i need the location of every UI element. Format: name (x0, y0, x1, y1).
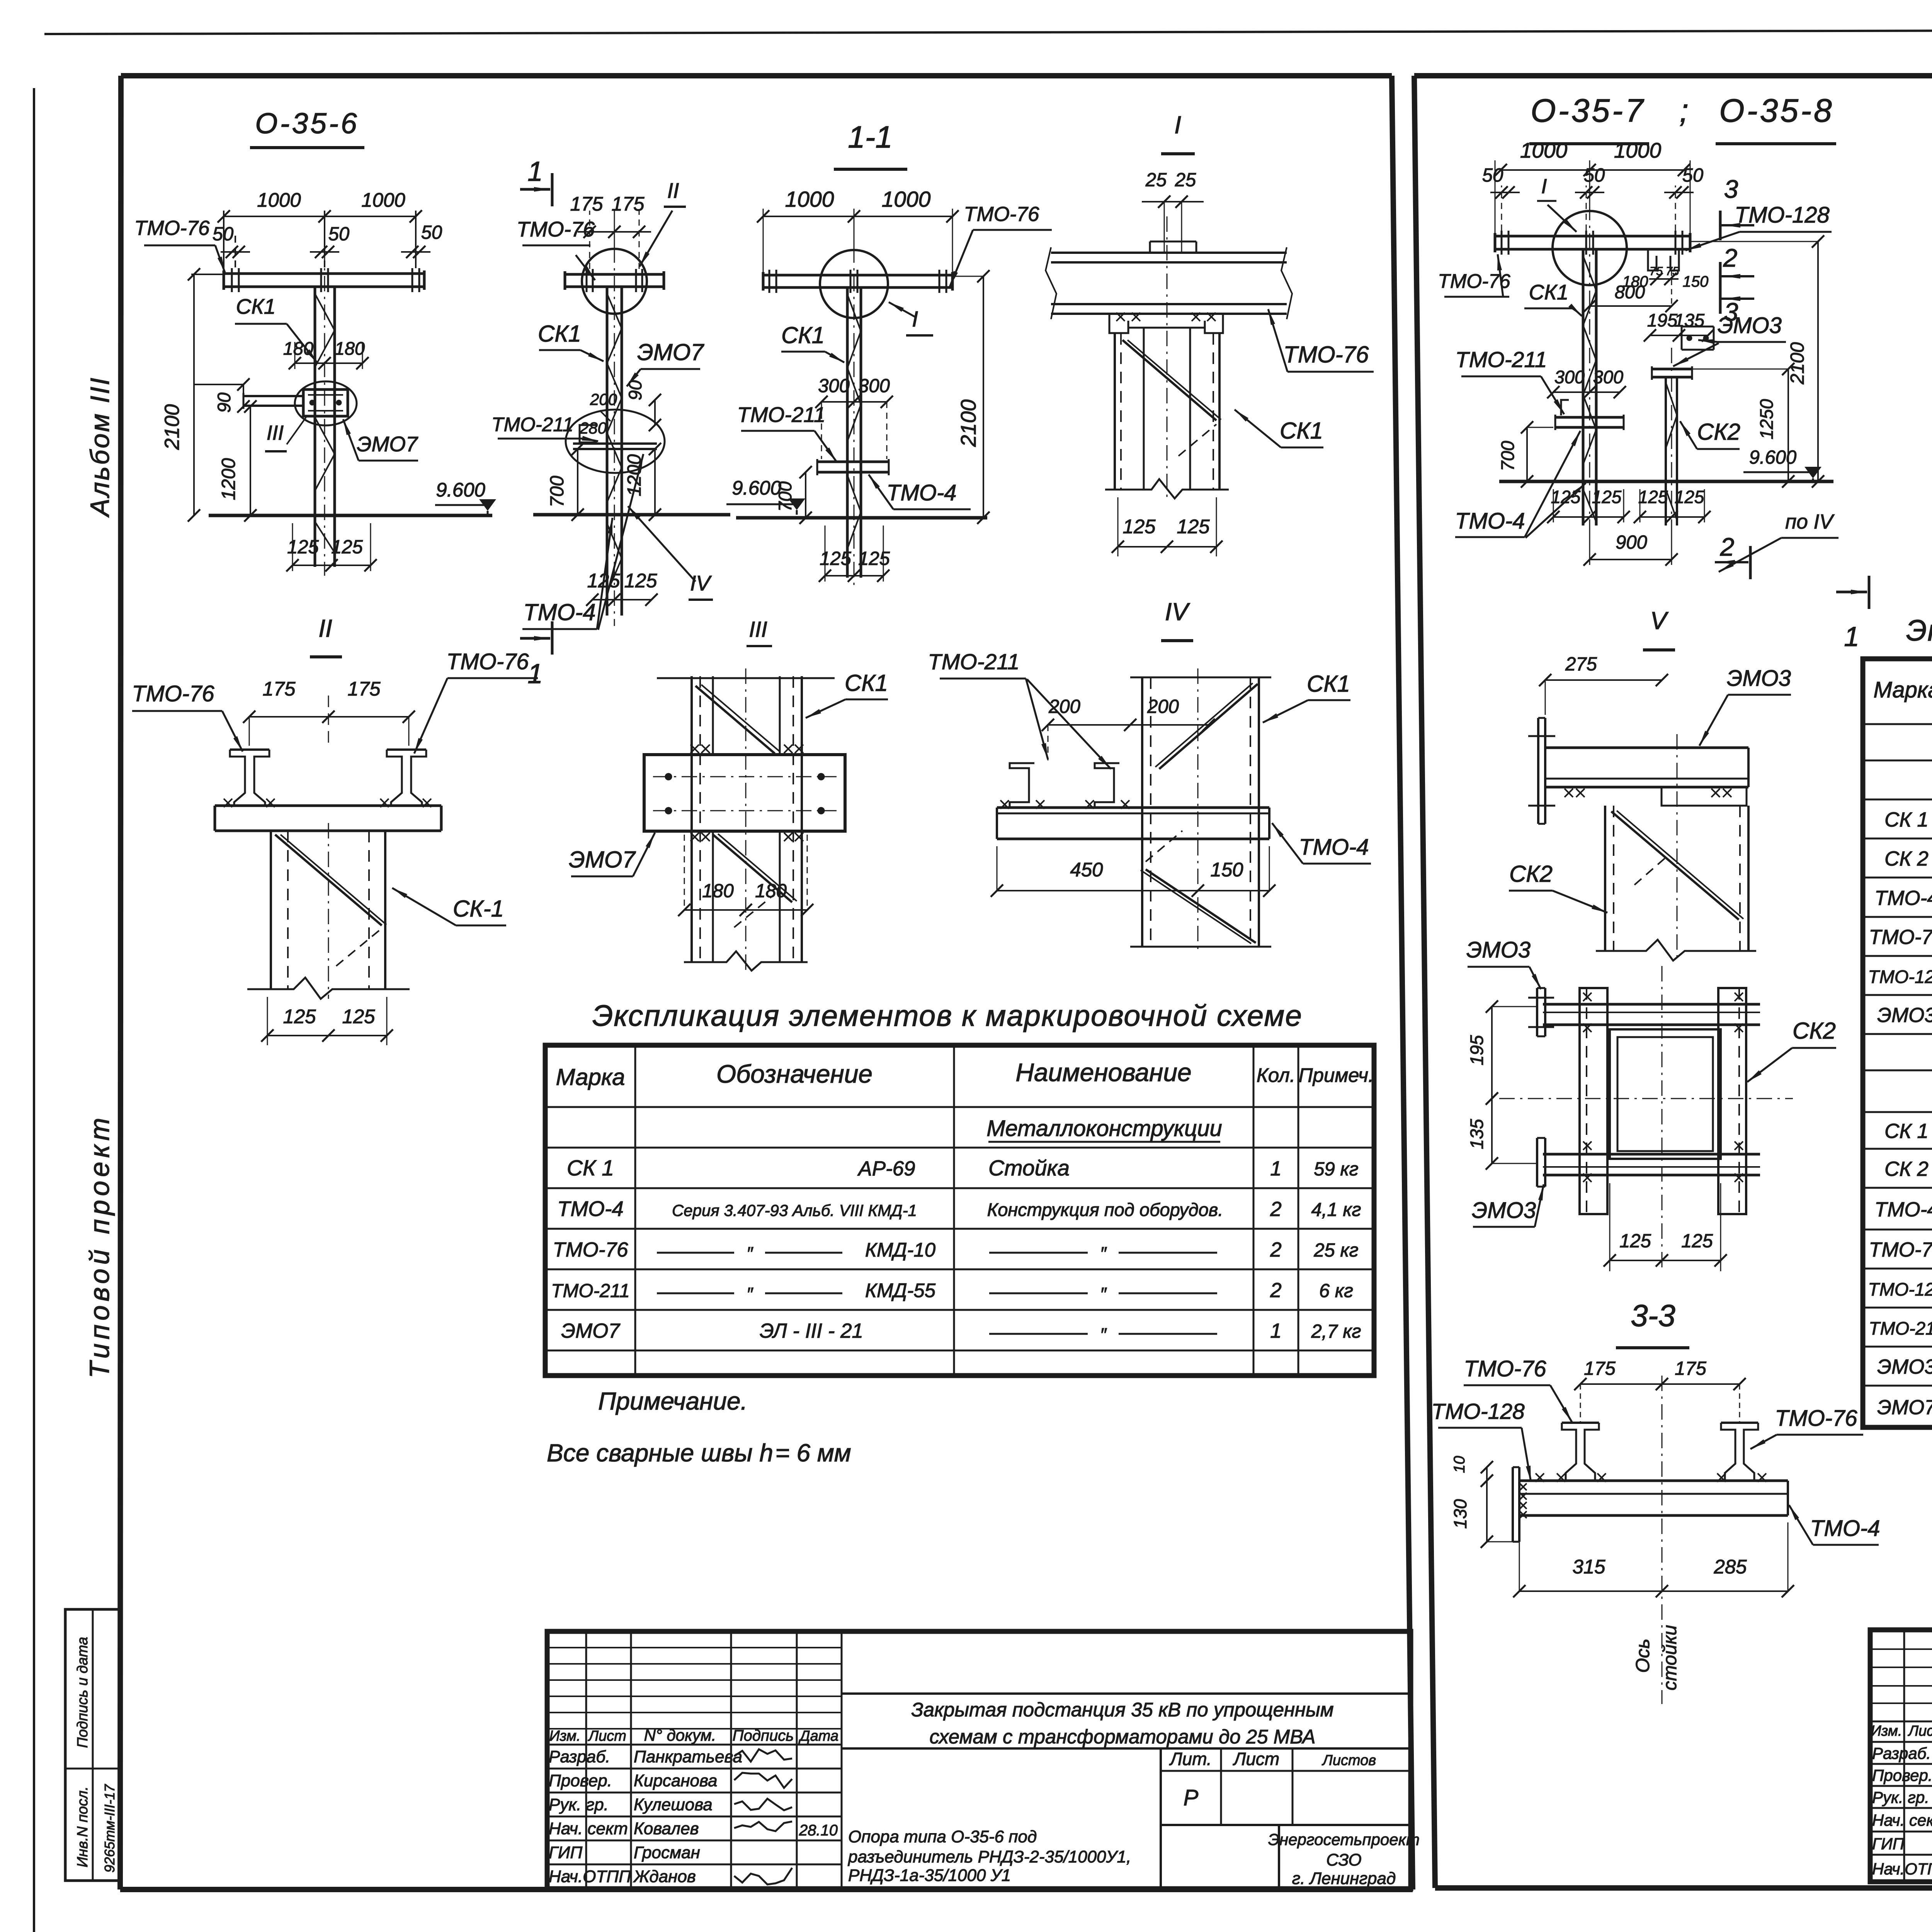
svg-text:Кирсанова: Кирсанова (634, 1771, 718, 1790)
svg-text:III: III (267, 422, 284, 444)
svg-text:175: 175 (347, 678, 381, 700)
svg-text:Типовой проект: Типовой проект (85, 1114, 115, 1378)
svg-text:300: 300 (1593, 367, 1623, 387)
svg-text:135: 135 (1466, 1119, 1487, 1149)
svg-text:стойки: стойки (1660, 1625, 1680, 1690)
svg-text:Кол.: Кол. (1257, 1064, 1295, 1086)
svg-text:О-35-7: О-35-7 (1531, 92, 1645, 129)
svg-text:300: 300 (818, 376, 850, 396)
svg-text:Ковалев: Ковалев (634, 1819, 699, 1838)
svg-text:Рук. гр.: Рук. гр. (549, 1795, 609, 1814)
svg-text:2: 2 (1270, 1279, 1281, 1302)
svg-text:СК1: СК1 (1307, 671, 1350, 697)
svg-text:Нач. сект: Нач. сект (549, 1819, 628, 1838)
svg-text:Инв.N посл.: Инв.N посл. (75, 1786, 91, 1867)
svg-text:ТМО-76: ТМО-76 (446, 649, 529, 674)
svg-text:Гросман: Гросман (634, 1843, 700, 1862)
svg-text:ЭМО3: ЭМО3 (1877, 1355, 1932, 1378)
svg-text:Провер.: Провер. (1872, 1766, 1932, 1784)
svg-text:180: 180 (702, 881, 734, 901)
svg-text:3-3: 3-3 (1631, 1298, 1675, 1333)
svg-text:200: 200 (1048, 696, 1080, 717)
svg-text:ТМО-76: ТМО-76 (1464, 1356, 1546, 1381)
svg-text:ЭМО7: ЭМО7 (569, 847, 636, 872)
svg-text:ТМО-76: ТМО-76 (134, 217, 210, 240)
svg-text:СК1: СК1 (1280, 418, 1323, 444)
svg-text:175: 175 (570, 193, 603, 215)
svg-text:50: 50 (421, 222, 442, 243)
svg-text:ТМО-211: ТМО-211 (1455, 347, 1547, 372)
svg-text:Экспликация элементов к: Экспликация элементов к маркировочной сх… (592, 999, 1303, 1032)
svg-text:Все сварные швы h = 6 м: Все сварные швы h = 6 мм (547, 1439, 851, 1467)
svg-text:9.600: 9.600 (1749, 447, 1797, 468)
svg-text:г. Ленинград: г. Ленинград (1292, 1869, 1396, 1888)
svg-text:ЭМО7: ЭМО7 (357, 432, 418, 456)
svg-text:Лист: Лист (1907, 1723, 1932, 1739)
svg-text:195: 195 (1647, 310, 1678, 330)
svg-text:ЭМО3: ЭМО3 (1877, 1004, 1932, 1027)
svg-text:150: 150 (1210, 859, 1243, 881)
svg-text:700: 700 (1497, 441, 1518, 471)
svg-text:I: I (1541, 175, 1547, 198)
svg-text:Опора типа О-35-6 под: Опора типа О-35-6 под (848, 1827, 1037, 1846)
svg-text:175: 175 (1675, 1358, 1707, 1379)
svg-text:9.600: 9.600 (732, 477, 781, 499)
svg-text:II: II (318, 614, 332, 642)
svg-text:50: 50 (328, 224, 350, 245)
svg-text:ТМО-4: ТМО-4 (1874, 1198, 1932, 1221)
svg-text:Панкратьева: Панкратьева (634, 1747, 742, 1766)
svg-text:25: 25 (1145, 170, 1167, 190)
svg-text:ГИП: ГИП (549, 1843, 582, 1862)
svg-text:КМД-10: КМД-10 (865, 1239, 935, 1261)
svg-text:125: 125 (858, 548, 890, 569)
svg-text:10: 10 (1451, 1456, 1468, 1473)
svg-text:АР-69: АР-69 (857, 1157, 915, 1180)
svg-text:ЭМО3: ЭМО3 (1472, 1198, 1536, 1223)
svg-text:Разраб.: Разраб. (549, 1747, 610, 1766)
svg-text:Изм.: Изм. (549, 1728, 580, 1744)
svg-text:Подпись: Подпись (733, 1727, 794, 1744)
svg-text:125: 125 (1638, 487, 1668, 507)
svg-text:ТМО-76: ТМО-76 (132, 681, 214, 706)
svg-text:Нач. сект.: Нач. сект. (1872, 1811, 1932, 1829)
svg-text:300: 300 (858, 376, 890, 396)
svg-text:Примечание.: Примечание. (598, 1387, 747, 1415)
svg-text:Разраб.: Разраб. (1872, 1744, 1931, 1762)
svg-text:50: 50 (1584, 165, 1605, 186)
svg-text:ТМО-211: ТМО-211 (928, 650, 1019, 674)
svg-text:ЭМО7: ЭМО7 (1877, 1396, 1932, 1419)
svg-text:;: ; (1679, 92, 1688, 129)
svg-text:Р: Р (1184, 1785, 1199, 1810)
svg-text:ТМО-76: ТМО-76 (517, 217, 595, 241)
svg-text:200: 200 (1147, 696, 1179, 717)
svg-text:IV: IV (690, 571, 712, 595)
svg-text:2100: 2100 (161, 404, 184, 450)
svg-text:1000: 1000 (361, 189, 405, 211)
svg-text:1: 1 (1844, 622, 1859, 652)
svg-text:СК 1: СК 1 (1884, 1120, 1929, 1143)
svg-text:125: 125 (1681, 1231, 1713, 1252)
svg-text:175: 175 (262, 678, 296, 700)
svg-text:″: ″ (747, 1243, 753, 1264)
svg-text:″: ″ (1100, 1324, 1107, 1345)
svg-text:Лист: Лист (587, 1728, 626, 1744)
svg-text:ЭМО7: ЭМО7 (561, 1320, 621, 1342)
svg-text:ЭМО3: ЭМО3 (1718, 313, 1782, 338)
svg-text:ЭМО3: ЭМО3 (1466, 937, 1531, 963)
svg-text:1250: 1250 (1756, 399, 1777, 440)
svg-text:50: 50 (213, 224, 234, 245)
svg-text:ТМО-4: ТМО-4 (1810, 1516, 1880, 1541)
svg-text:125: 125 (287, 537, 319, 558)
svg-text:200: 200 (590, 390, 617, 408)
svg-text:″: ″ (1100, 1243, 1107, 1264)
svg-text:КМД-55: КМД-55 (865, 1279, 936, 1301)
svg-text:по IV: по IV (1785, 510, 1835, 533)
svg-text:2: 2 (1270, 1198, 1281, 1221)
svg-text:ТМО-211: ТМО-211 (492, 413, 573, 435)
svg-text:1000: 1000 (1520, 138, 1568, 162)
svg-text:ТМО-211: ТМО-211 (737, 403, 826, 427)
svg-text:125: 125 (1177, 515, 1210, 537)
svg-text:″: ″ (747, 1284, 753, 1304)
svg-text:Нач.ОТПП: Нач.ОТПП (549, 1867, 631, 1886)
svg-text:Примеч.: Примеч. (1299, 1064, 1374, 1086)
svg-text:Альбом III: Альбом III (85, 376, 115, 518)
svg-text:2: 2 (1720, 532, 1735, 561)
svg-text:Металлоконструкции: Металлоконструкции (986, 1116, 1222, 1141)
svg-text:9.600: 9.600 (436, 479, 485, 501)
svg-text:СК1: СК1 (1529, 280, 1569, 304)
svg-text:Изм.: Изм. (1871, 1723, 1902, 1739)
svg-text:СК 1: СК 1 (1884, 808, 1929, 831)
svg-text:ТМО-211: ТМО-211 (551, 1281, 630, 1301)
svg-text:Кулешова: Кулешова (634, 1795, 713, 1814)
svg-text:1000: 1000 (882, 187, 931, 212)
svg-text:180: 180 (755, 881, 787, 901)
svg-text:II: II (667, 179, 679, 202)
svg-text:150: 150 (1683, 273, 1709, 290)
svg-text:ТМО-211: ТМО-211 (1869, 1318, 1932, 1338)
svg-text:Подпись и дата: Подпись и дата (75, 1637, 91, 1748)
svg-text:Лит.: Лит. (1169, 1749, 1212, 1769)
svg-text:ТМО-76: ТМО-76 (1775, 1406, 1857, 1431)
svg-text:125: 125 (1675, 487, 1704, 507)
svg-text:ГИП: ГИП (1872, 1835, 1905, 1853)
svg-text:125: 125 (587, 570, 620, 592)
svg-text:ТМО-4: ТМО-4 (1874, 887, 1932, 910)
svg-text:175: 175 (1584, 1358, 1616, 1379)
svg-text:Дата: Дата (798, 1728, 838, 1744)
svg-text:СК1: СК1 (236, 294, 276, 318)
svg-text:N° докум.: N° докум. (644, 1726, 716, 1744)
svg-text:СК2: СК2 (1509, 861, 1553, 887)
svg-text:ТМО-76: ТМО-76 (1284, 342, 1369, 367)
svg-text:СЗО: СЗО (1326, 1850, 1362, 1869)
svg-text:315: 315 (1572, 1556, 1605, 1578)
svg-text:Лист: Лист (1233, 1749, 1279, 1769)
svg-text:разъединитель РНДЗ-2-35/1000У: разъединитель РНДЗ-2-35/1000У1, (847, 1847, 1131, 1866)
svg-text:125: 125 (342, 1005, 375, 1027)
svg-text:СК2: СК2 (1697, 419, 1740, 445)
svg-text:125: 125 (820, 548, 852, 569)
svg-text:СК1: СК1 (781, 322, 825, 348)
svg-text:СК1: СК1 (538, 321, 581, 347)
svg-text:ТМО-128: ТМО-128 (1868, 1279, 1932, 1299)
svg-text:СК-1: СК-1 (453, 896, 504, 922)
svg-text:Экспликация элементов к: Экспликация элементов к маркировочной сх… (1906, 614, 1932, 647)
svg-text:1000: 1000 (257, 189, 301, 211)
svg-text:125: 125 (283, 1005, 316, 1027)
svg-text:50: 50 (1682, 165, 1704, 186)
svg-text:2,7 кг: 2,7 кг (1311, 1321, 1361, 1342)
svg-text:Наименование: Наименование (1015, 1058, 1192, 1087)
svg-text:I: I (1174, 111, 1181, 139)
svg-text:25: 25 (1175, 170, 1196, 190)
svg-text:III: III (749, 617, 767, 642)
svg-text:Листов: Листов (1321, 1752, 1376, 1769)
svg-text:50: 50 (1482, 165, 1503, 186)
svg-text:180: 180 (335, 338, 365, 359)
svg-text:ТМО-4: ТМО-4 (557, 1197, 624, 1221)
svg-text:СК 2: СК 2 (1884, 847, 1929, 870)
svg-text:1000: 1000 (785, 187, 834, 212)
svg-text:1: 1 (1270, 1157, 1281, 1180)
svg-text:1: 1 (527, 156, 543, 187)
svg-text:ТМО-4: ТМО-4 (886, 480, 956, 505)
svg-text:РНДЗ-1а-35/1000 У1: РНДЗ-1а-35/1000 У1 (848, 1866, 1011, 1885)
svg-text:Марка: Марка (1873, 677, 1932, 702)
svg-text:90: 90 (214, 393, 234, 413)
svg-text:Провер.: Провер. (549, 1771, 612, 1790)
svg-text:IV: IV (1165, 598, 1190, 626)
svg-text:Жданов: Жданов (633, 1867, 696, 1886)
svg-text:ТМО-76: ТМО-76 (964, 203, 1039, 226)
svg-text:125: 125 (1592, 487, 1622, 507)
svg-text:Обозначение: Обозначение (716, 1060, 872, 1088)
svg-text:130: 130 (1450, 1499, 1470, 1529)
svg-text:9265тм-III-17: 9265тм-III-17 (102, 1784, 117, 1872)
svg-text:СК1: СК1 (845, 670, 888, 696)
svg-text:Энергосетьпроект: Энергосетьпроект (1268, 1830, 1420, 1849)
svg-text:Марка: Марка (556, 1064, 625, 1090)
svg-text:280: 280 (579, 419, 607, 437)
svg-text:180: 180 (283, 338, 313, 359)
svg-text:125: 125 (1619, 1231, 1651, 1252)
svg-text:3: 3 (1724, 175, 1738, 203)
svg-text:Нач.ОТПП: Нач.ОТПП (1872, 1860, 1932, 1878)
svg-text:700: 700 (547, 476, 568, 507)
svg-text:1: 1 (1270, 1320, 1281, 1342)
svg-text:СК2: СК2 (1793, 1018, 1836, 1044)
svg-text:Рук. гр.: Рук. гр. (1872, 1788, 1929, 1806)
svg-text:25 кг: 25 кг (1313, 1240, 1358, 1261)
svg-text:О-35-8: О-35-8 (1719, 92, 1834, 129)
svg-text:ТМО-4: ТМО-4 (1455, 509, 1525, 534)
svg-text:195: 195 (1466, 1035, 1487, 1065)
svg-text:4,1 кг: 4,1 кг (1311, 1199, 1361, 1220)
svg-text:90: 90 (625, 380, 645, 400)
svg-text:28.10: 28.10 (799, 1822, 838, 1839)
svg-text:ТМО-76: ТМО-76 (1869, 926, 1932, 949)
svg-text:О-35-6: О-35-6 (255, 107, 359, 139)
svg-text:СК 1: СК 1 (567, 1156, 614, 1180)
svg-text:700: 700 (775, 481, 795, 512)
svg-text:Серия 3.407-93 Альб. VIII КМ: Серия 3.407-93 Альб. VIII КМД-1 (672, 1201, 917, 1219)
svg-text:125: 125 (331, 537, 363, 558)
svg-text:ТМО-76: ТМО-76 (1869, 1238, 1932, 1261)
svg-text:1: 1 (527, 659, 543, 689)
svg-text:900: 900 (1616, 532, 1647, 553)
svg-text:″: ″ (1100, 1284, 1107, 1304)
svg-text:1000: 1000 (1614, 138, 1662, 162)
svg-text:125: 125 (624, 570, 657, 592)
svg-text:ЭМО3: ЭМО3 (1727, 666, 1791, 691)
svg-text:ТМО-128: ТМО-128 (1868, 966, 1932, 987)
svg-text:1200: 1200 (218, 458, 239, 500)
svg-text:285: 285 (1713, 1556, 1747, 1578)
svg-text:125: 125 (1122, 515, 1156, 537)
svg-text:V: V (1650, 607, 1669, 634)
svg-text:2100: 2100 (1787, 342, 1808, 384)
svg-text:800: 800 (1615, 282, 1645, 302)
svg-text:ТМО-128: ТМО-128 (1735, 202, 1830, 228)
svg-text:Ось: Ось (1633, 1639, 1653, 1673)
svg-text:ЭЛ - III - 21: ЭЛ - III - 21 (760, 1320, 863, 1342)
svg-text:450: 450 (1070, 859, 1103, 881)
svg-text:СК 2: СК 2 (1884, 1158, 1929, 1180)
svg-text:6 кг: 6 кг (1319, 1281, 1353, 1301)
svg-text:ТМО-4: ТМО-4 (1299, 835, 1369, 860)
svg-text:ЭМО7: ЭМО7 (637, 339, 704, 365)
svg-text:ТМО-128: ТМО-128 (1431, 1399, 1525, 1424)
svg-text:ТМО-4: ТМО-4 (523, 599, 595, 625)
svg-text:ТМО-76: ТМО-76 (553, 1238, 628, 1261)
svg-text:Закрытая подстанция 35 кВ: Закрытая подстанция 35 кВ по упрощенным (911, 1699, 1333, 1721)
svg-text:Конструкция под оборудов.: Конструкция под оборудов. (987, 1199, 1223, 1220)
svg-text:175: 175 (611, 193, 645, 215)
svg-text:275: 275 (1565, 654, 1597, 675)
svg-text:59 кг: 59 кг (1314, 1159, 1358, 1180)
svg-text:2: 2 (1270, 1238, 1281, 1261)
svg-text:I: I (912, 307, 918, 332)
svg-text:2: 2 (1723, 243, 1738, 272)
svg-text:Стойка: Стойка (988, 1156, 1070, 1180)
svg-text:схемам с трансформаторами: схемам с трансформаторами до 25 МВА (929, 1726, 1315, 1748)
svg-text:2100: 2100 (956, 399, 980, 447)
svg-text:1-1: 1-1 (848, 120, 893, 154)
svg-text:300: 300 (1554, 367, 1585, 387)
